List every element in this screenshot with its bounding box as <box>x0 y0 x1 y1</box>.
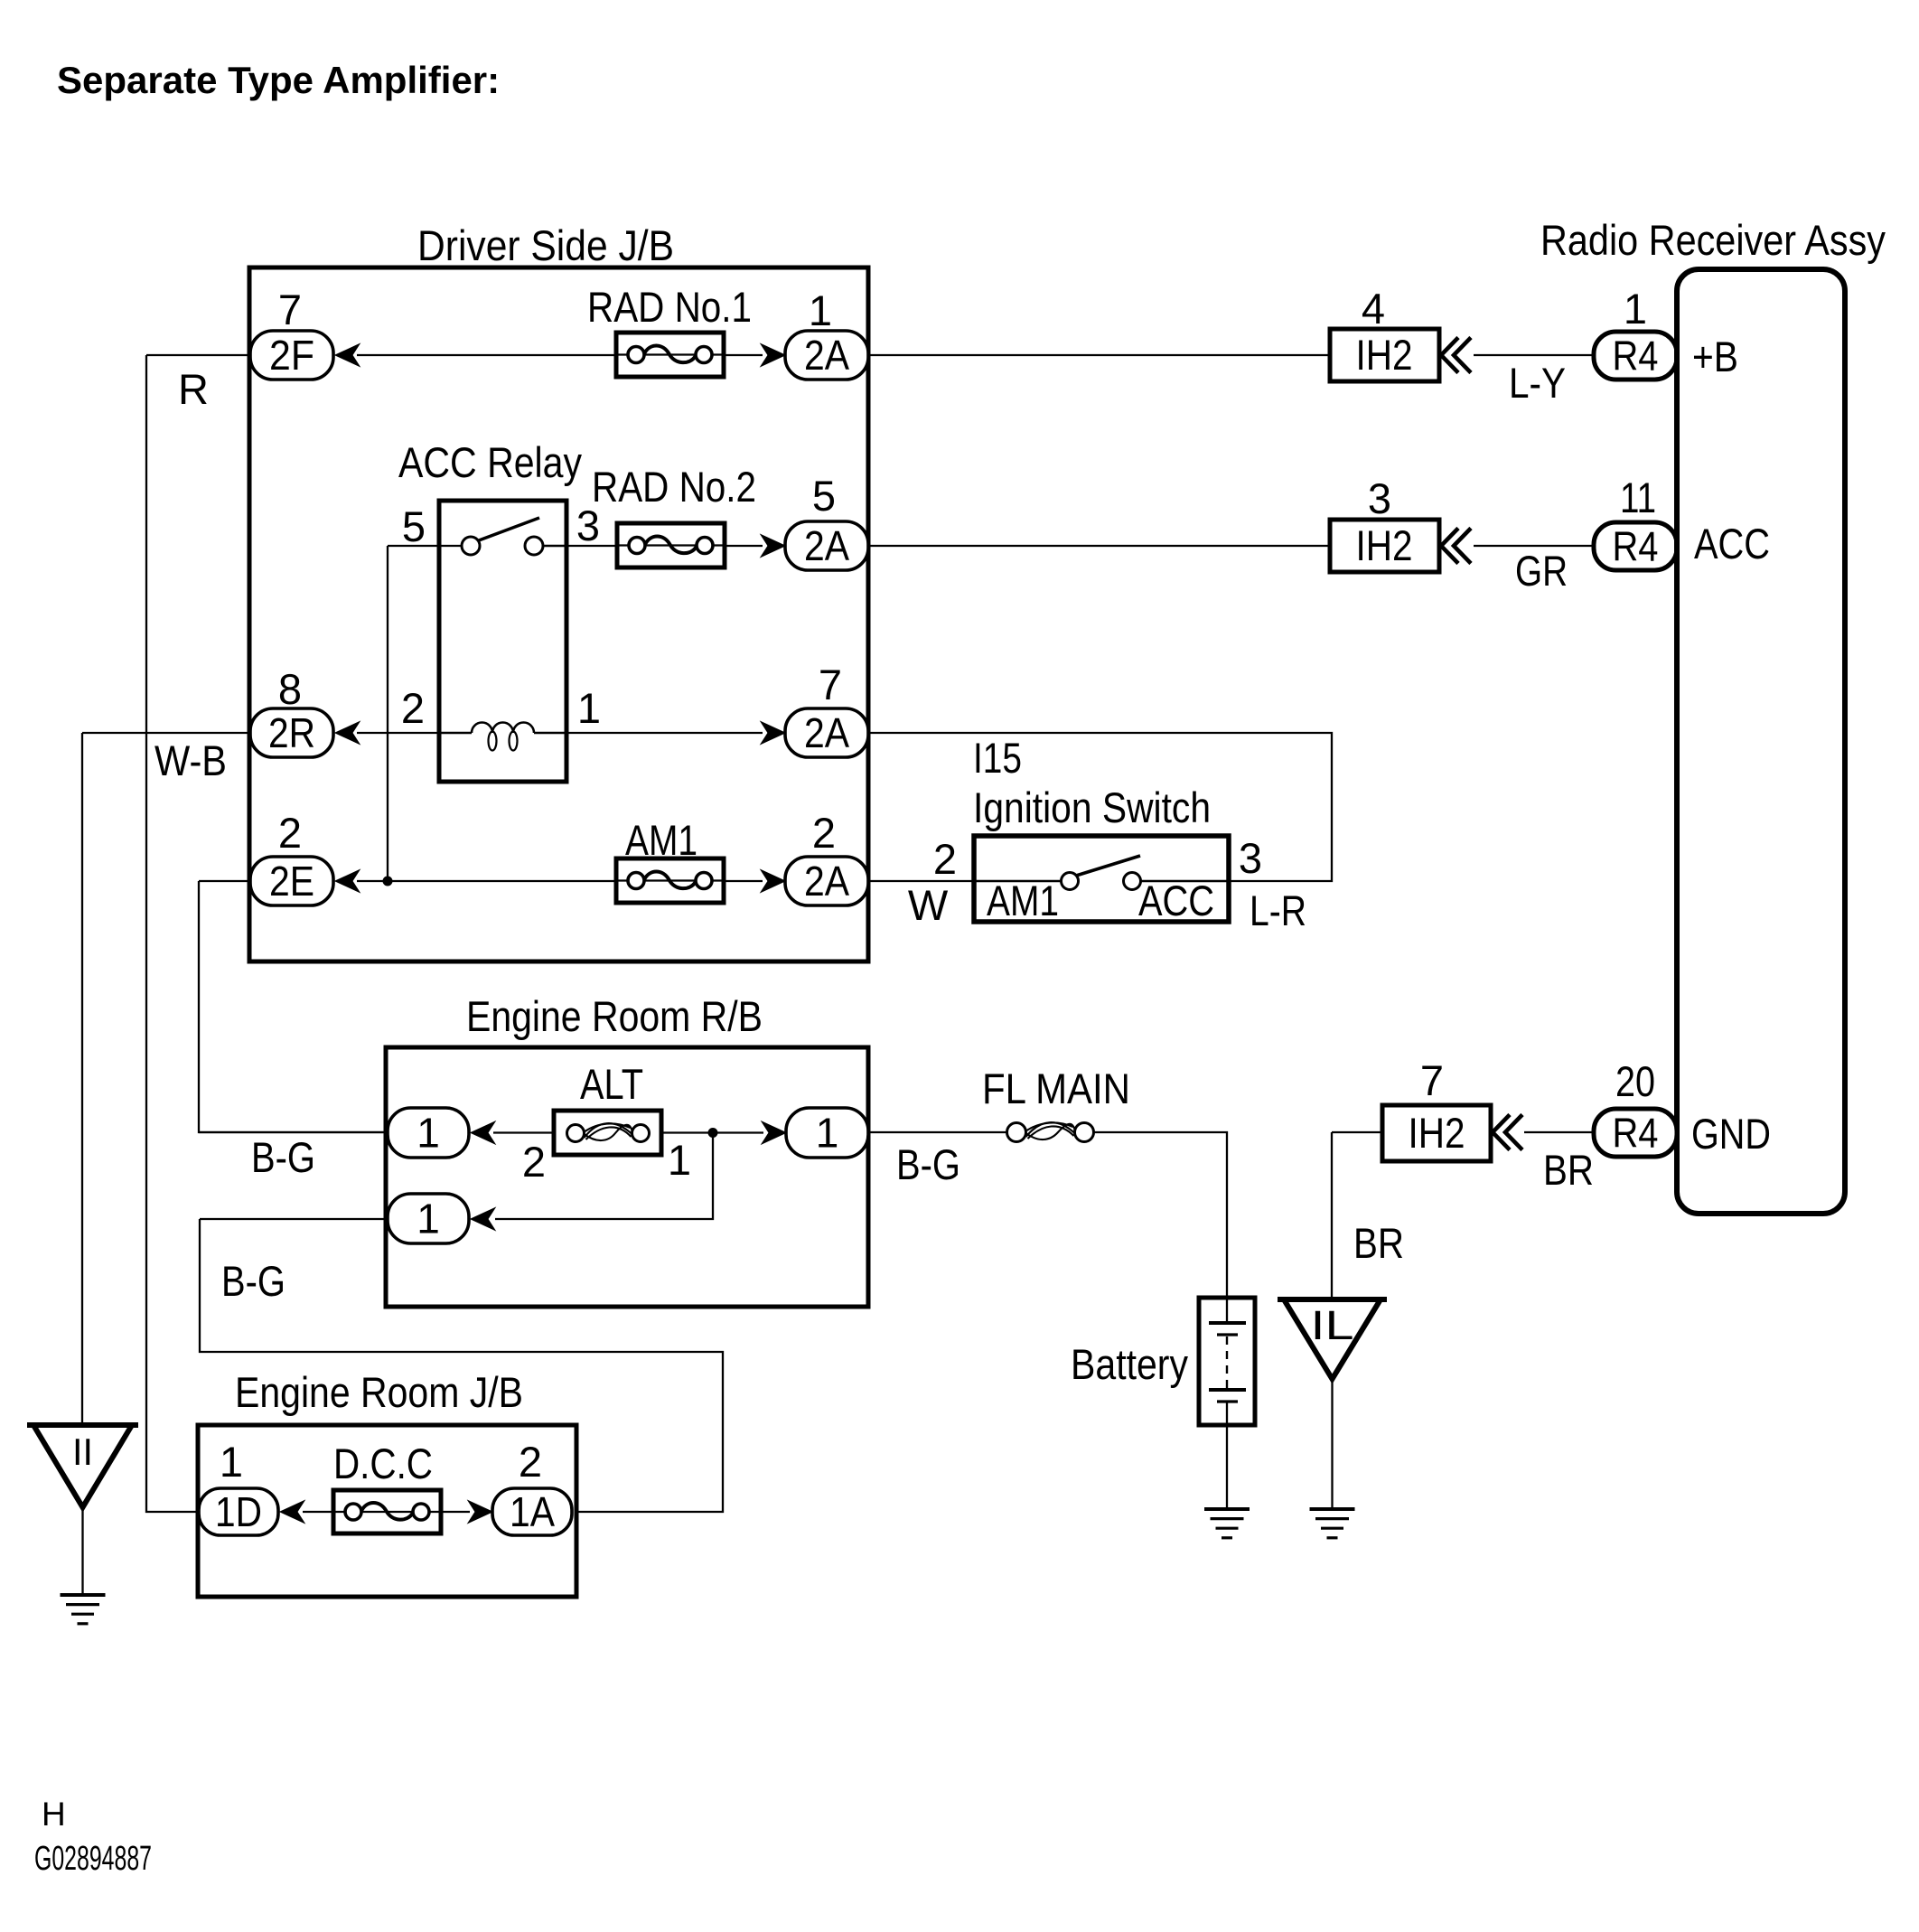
connector R4 pin 1 <box>1594 332 1677 380</box>
wire 2A1 to IH2 pin 4 <box>868 354 1330 356</box>
arrow into 2A pin 2 <box>761 870 785 893</box>
wire IL riser to IH2 pin 7 <box>1332 1132 1382 1299</box>
svg-text:Battery: Battery <box>1071 1340 1188 1388</box>
svg-text:R4: R4 <box>1613 1110 1659 1157</box>
svg-text:3: 3 <box>1368 474 1391 522</box>
svg-text:Radio Receiver Assy: Radio Receiver Assy <box>1540 216 1886 264</box>
junction dot at 2E wire <box>383 877 393 886</box>
connector 2A pin 5 <box>785 521 868 570</box>
ground under battery <box>1204 1509 1250 1538</box>
svg-text:5: 5 <box>402 502 426 550</box>
connector 2E pin 2 <box>250 857 333 905</box>
wire IH2 to R4 pin20 <box>1524 1131 1594 1133</box>
svg-text:RAD No.2: RAD No.2 <box>592 463 756 511</box>
svg-text:1: 1 <box>220 1438 243 1486</box>
svg-text:1: 1 <box>1624 285 1647 333</box>
wire oval1 to ALT fuse <box>493 1131 554 1133</box>
wire 2A5 to IH2 pin 3 <box>868 545 1330 547</box>
svg-text:IH2: IH2 <box>1356 331 1413 379</box>
ground under IL <box>1310 1509 1355 1538</box>
connector IH2 pin 7 <box>1382 1105 1491 1161</box>
svg-text:Engine Room J/B: Engine Room J/B <box>235 1368 523 1416</box>
svg-text:1A: 1A <box>510 1488 555 1535</box>
connector 1D pin 1 <box>199 1488 278 1535</box>
svg-text:2: 2 <box>401 684 425 732</box>
svg-text:7: 7 <box>1420 1056 1444 1104</box>
wire IL to ground <box>1331 1379 1333 1509</box>
connector IH2 pin 4 <box>1330 329 1439 381</box>
battery <box>1199 1298 1255 1425</box>
arrow into 2A pin 1 <box>761 344 785 367</box>
relay block Engine Room R/B <box>386 1047 868 1307</box>
fuse D.C.C <box>333 1490 441 1533</box>
connector R4 pin 20 <box>1594 1109 1677 1157</box>
arrow into oval 1 upper <box>471 1121 495 1144</box>
svg-text:G02894887: G02894887 <box>34 1840 152 1878</box>
svg-text:2: 2 <box>278 809 302 857</box>
connector IH2 pin 3 <box>1330 520 1439 572</box>
svg-text:I15: I15 <box>973 734 1022 782</box>
svg-text:1: 1 <box>668 1136 691 1184</box>
svg-text:IL: IL <box>1311 1302 1354 1348</box>
svg-text:2A: 2A <box>804 709 849 756</box>
svg-text:B-G: B-G <box>251 1133 315 1181</box>
ground under II <box>61 1595 106 1624</box>
arrow into 2E <box>335 870 360 893</box>
chevron arrows row3 <box>1493 1115 1522 1150</box>
wire oval2 to left and down <box>200 1219 723 1512</box>
svg-text:1: 1 <box>417 1110 440 1157</box>
svg-text:Separate Type Amplifier:: Separate Type Amplifier: <box>57 59 500 101</box>
svg-text:7: 7 <box>278 286 302 333</box>
junction dot after ALT <box>708 1128 718 1138</box>
wire relay pin 5 vertical <box>387 546 388 881</box>
svg-text:IH2: IH2 <box>1356 521 1413 569</box>
svg-text:2A: 2A <box>804 522 849 569</box>
chevron arrows row1 <box>1441 338 1471 373</box>
svg-text:D.C.C: D.C.C <box>333 1440 433 1487</box>
svg-text:2: 2 <box>519 1438 542 1486</box>
fusible link FL MAIN <box>1007 1122 1094 1141</box>
svg-text:IH2: IH2 <box>1409 1109 1465 1157</box>
svg-text:2: 2 <box>933 835 957 883</box>
svg-text:BR: BR <box>1543 1146 1594 1194</box>
wire IH2 to R4 pin11 <box>1474 545 1594 547</box>
fuse RAD No.1 <box>616 333 724 377</box>
wire 2R to relay coil <box>357 732 439 734</box>
svg-text:L-R: L-R <box>1250 886 1306 934</box>
connector R4 pin 11 <box>1594 522 1677 570</box>
wire relay pin 3 to RAD No.2 fuse <box>566 545 617 547</box>
connector 2A pin 1 <box>785 331 868 380</box>
svg-text:B-G: B-G <box>221 1257 286 1305</box>
svg-text:11: 11 <box>1620 474 1656 521</box>
wire 2E to AM1 fuse <box>357 880 616 882</box>
svg-text:+B: +B <box>1692 333 1738 380</box>
relay coil <box>439 723 566 751</box>
fuse AM1 <box>616 858 724 903</box>
connector IL <box>1278 1299 1387 1379</box>
svg-text:R4: R4 <box>1613 523 1659 570</box>
svg-text:B-G: B-G <box>896 1140 960 1188</box>
wire into RB oval1 from left <box>199 1131 388 1133</box>
svg-text:II: II <box>72 1430 93 1473</box>
wire net R vertical <box>146 355 250 1512</box>
svg-text:ALT: ALT <box>580 1060 643 1108</box>
switch I15 Ignition Switch <box>974 836 1229 922</box>
svg-text:R: R <box>178 365 209 413</box>
svg-text:2: 2 <box>522 1138 546 1186</box>
svg-text:W-B: W-B <box>154 736 227 784</box>
svg-text:1: 1 <box>816 1110 839 1157</box>
connector 1A pin 2 <box>492 1488 572 1535</box>
svg-text:1D: 1D <box>215 1488 262 1535</box>
connector 2A pin 7 <box>785 708 868 757</box>
wire AM1 to arrow <box>724 880 763 882</box>
svg-text:1: 1 <box>577 684 601 732</box>
wire net B-G from 2E <box>199 881 388 1132</box>
svg-text:FL MAIN: FL MAIN <box>982 1064 1130 1112</box>
wire 2F to RAD No.1 fuse <box>357 354 616 356</box>
wire 1D to D.C.C fuse <box>303 1511 333 1513</box>
svg-text:ACC: ACC <box>1694 520 1770 567</box>
connector 2R pin 8 <box>250 708 333 757</box>
arrow into 2F <box>335 344 360 367</box>
connector 1 right of R/B <box>786 1108 868 1158</box>
svg-text:W: W <box>908 881 949 929</box>
wire II to ground <box>81 1507 83 1595</box>
svg-text:2F: 2F <box>269 332 314 379</box>
svg-text:ACC Relay: ACC Relay <box>398 438 582 486</box>
svg-text:Engine Room R/B: Engine Room R/B <box>466 992 763 1040</box>
wire D.C.C to arrow <box>441 1511 470 1513</box>
svg-text:GR: GR <box>1515 547 1568 595</box>
svg-text:Ignition Switch: Ignition Switch <box>973 783 1211 831</box>
arrow into oval 1 lower <box>471 1208 495 1231</box>
component Radio Receiver Assy <box>1677 269 1845 1214</box>
wire IH2 to R4 pin1 <box>1474 354 1594 356</box>
svg-text:Driver Side J/B: Driver Side J/B <box>417 221 674 269</box>
connector 2F pin 7 <box>250 331 333 380</box>
relay switch contacts <box>462 518 566 555</box>
svg-text:2A: 2A <box>804 332 849 379</box>
fuse RAD No.2 <box>617 523 725 567</box>
svg-text:3: 3 <box>1239 834 1262 882</box>
arrow into 2A pin 7 <box>761 722 785 745</box>
ignition switch contacts <box>974 856 1229 890</box>
wire R/B to FL MAIN <box>868 1131 1006 1133</box>
wire ALT to arrow <box>662 1131 763 1133</box>
junction block Driver Side J/B <box>249 267 868 961</box>
arrow into 1A <box>468 1501 492 1524</box>
svg-text:GND: GND <box>1691 1110 1771 1158</box>
svg-text:L-Y: L-Y <box>1509 359 1566 407</box>
arrow into oval 1 right <box>762 1121 786 1144</box>
svg-text:RAD No.1: RAD No.1 <box>587 283 752 331</box>
svg-text:7: 7 <box>819 661 842 708</box>
arrow into 2A pin 5 <box>761 535 785 558</box>
svg-text:AM1: AM1 <box>987 877 1059 924</box>
connector 2A pin 2 <box>785 857 868 905</box>
svg-text:ACC: ACC <box>1138 877 1214 924</box>
svg-text:20: 20 <box>1615 1057 1655 1105</box>
svg-text:5: 5 <box>812 472 836 520</box>
chevron arrows row2 <box>1441 529 1471 564</box>
wire 2A2 to ignition switch pin 2 <box>868 880 974 882</box>
wire junction down to oval2 <box>495 1133 713 1220</box>
svg-text:2R: 2R <box>268 709 315 756</box>
relay ACC Relay <box>439 501 566 782</box>
svg-text:4: 4 <box>1362 285 1385 333</box>
wire RAD No.2 to arrow <box>725 545 763 547</box>
wire relay pin 5 lead <box>388 545 462 547</box>
svg-text:8: 8 <box>278 665 302 713</box>
svg-text:2E: 2E <box>269 858 314 905</box>
svg-text:R4: R4 <box>1613 333 1659 380</box>
svg-text:1: 1 <box>417 1196 440 1243</box>
arrow into 1D <box>280 1501 304 1524</box>
fuse ALT <box>554 1111 661 1155</box>
connector II <box>27 1425 138 1507</box>
wire net W-B to ground <box>82 733 250 1425</box>
svg-text:1: 1 <box>809 286 832 334</box>
wire FL MAIN to battery <box>1094 1132 1227 1323</box>
wire battery to ground <box>1226 1402 1228 1509</box>
connector 1 upper left of R/B <box>388 1108 469 1158</box>
svg-text:BR: BR <box>1353 1219 1404 1267</box>
svg-text:2: 2 <box>812 809 836 857</box>
wire RAD No.1 to arrow <box>724 354 763 356</box>
wire 2A7 to ignition switch pin 3 <box>868 733 1332 881</box>
svg-text:H: H <box>42 1796 66 1833</box>
arrow into 2R <box>335 722 360 745</box>
junction block Engine Room J/B <box>198 1425 576 1597</box>
svg-text:2A: 2A <box>804 858 849 905</box>
connector 1 lower left of R/B <box>388 1194 469 1243</box>
wire relay coil pin 1 to arrow <box>566 732 763 734</box>
